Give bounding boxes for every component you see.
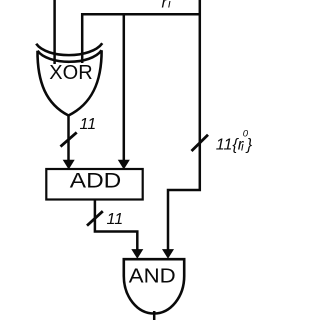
svg-text:11: 11 bbox=[107, 211, 124, 228]
wire input a (XOR left input) bbox=[53, 0, 56, 64]
wire ADD output to AND bbox=[95, 200, 137, 251]
wire XOR right input drop bbox=[81, 13, 84, 63]
arrowhead into AND left bbox=[131, 249, 143, 259]
bus width label 11 (XOR output) bbox=[80, 116, 97, 133]
arrowhead into ADD left bbox=[63, 160, 75, 170]
svg-text:}: } bbox=[245, 136, 253, 153]
bus width label 11{ri0} bbox=[216, 129, 253, 154]
svg-text:11: 11 bbox=[80, 116, 97, 133]
label ADD bbox=[70, 168, 121, 192]
label AND bbox=[129, 265, 176, 287]
bus slash XOR output bbox=[61, 132, 77, 146]
bus slash ADD output bbox=[87, 211, 103, 225]
arrowhead into AND right bbox=[162, 249, 174, 259]
and gate U2 bbox=[124, 259, 184, 313]
bus width label 11 (ADD output) bbox=[107, 211, 124, 228]
svg-text:AND: AND bbox=[129, 265, 176, 287]
bus slash r_i bus bbox=[192, 135, 209, 151]
svg-text:XOR: XOR bbox=[49, 62, 92, 84]
svg-text:11{r: 11{r bbox=[216, 136, 244, 153]
wire top horizontal bus bbox=[81, 13, 201, 16]
wire long right vertical (r_i bus) bbox=[168, 0, 200, 251]
svg-text:r: r bbox=[162, 0, 168, 12]
wire ADD right input drop bbox=[123, 13, 126, 162]
wire AND output bbox=[153, 311, 156, 320]
arrowhead into ADD right bbox=[118, 160, 130, 170]
adder ADD box bbox=[46, 169, 142, 200]
wire XOR output to ADD bbox=[67, 114, 70, 162]
label XOR bbox=[49, 62, 92, 84]
svg-text:ADD: ADD bbox=[70, 168, 121, 192]
svg-text:i: i bbox=[241, 140, 244, 154]
node label ri (top input) bbox=[162, 0, 172, 12]
svg-text:i: i bbox=[168, 0, 171, 11]
xor gate U1 bbox=[36, 43, 102, 115]
